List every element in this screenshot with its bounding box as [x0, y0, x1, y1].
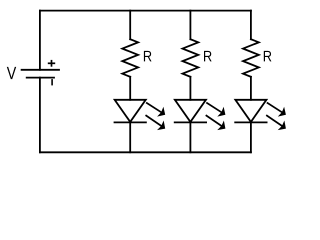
LED D2 triangle (anode) [175, 100, 206, 122]
wire: LED cathode to bottom rail (branch 2) [189, 122, 191, 152]
wire: top rail [40, 10, 251, 12]
label V (source) [7, 67, 16, 79]
LED D2 light arrow 1 [207, 103, 225, 117]
wire: resistor to LED anode (branch 3) [250, 77, 252, 100]
wire: resistor to LED anode (branch 1) [129, 77, 131, 100]
battery V long plate (positive) [22, 69, 59, 71]
wire: LED cathode to bottom rail (branch 1) [129, 122, 131, 152]
battery minus tick [51, 80, 53, 85]
LED D3 cathode bar [235, 121, 266, 123]
battery plus sign [48, 60, 55, 67]
wire: branch 2 from top rail down to resistor [189, 11, 191, 40]
LED D1 cathode bar [115, 121, 146, 123]
wire: branch 3 from top rail down to resistor [250, 11, 252, 40]
LED D2 light arrow 2 [206, 116, 225, 131]
wire: left rail upper (top rail to battery positive plate) [39, 11, 41, 70]
wire: left rail lower (battery negative plate to bottom rail) [39, 78, 41, 153]
battery V short plate (negative) [27, 77, 54, 79]
resistor R (branch 1) zigzag [122, 39, 138, 77]
LED D3 light arrow 1 [268, 103, 286, 117]
LED D2 cathode bar [175, 121, 206, 123]
wire: LED cathode to bottom rail (branch 3) [250, 122, 252, 152]
wire: resistor to LED anode (branch 2) [189, 77, 191, 100]
wire: bottom rail [40, 151, 251, 153]
LED D3 light arrow 2 [267, 116, 286, 131]
LED D1 light arrow 2 [146, 116, 165, 131]
resistor R (branch 2) zigzag [183, 39, 199, 77]
label R (branch 2) [204, 51, 212, 62]
LED D1 light arrow 1 [147, 103, 165, 117]
label R (branch 1) [144, 51, 152, 62]
LED D1 triangle (anode) [115, 100, 146, 122]
wire: branch 1 from top rail down to resistor [129, 11, 131, 40]
resistor R (branch 3) zigzag [243, 39, 259, 77]
LED D3 triangle (anode) [235, 100, 266, 122]
label R (branch 3) [264, 51, 272, 62]
